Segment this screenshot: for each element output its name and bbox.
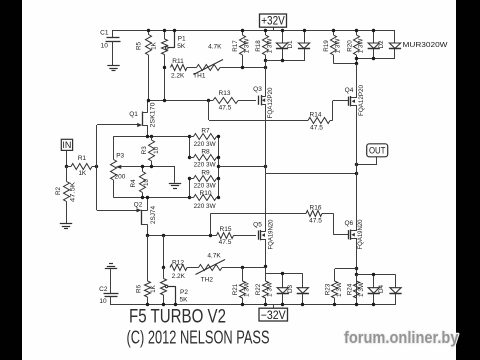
svg-text:C1: C1 [100,29,109,36]
junction D2a bottom [372,57,375,60]
svg-text:−32V: −32V [261,310,286,322]
TH1 value 4.7K [208,43,222,50]
junction D1b top [303,29,306,32]
svg-text:1K: 1K [150,41,157,50]
junction R18 top [264,29,267,32]
resistor R18 [263,30,269,61]
transistor Q4 [349,96,358,106]
junction rail P2 [162,303,165,306]
svg-text:D2: D2 [378,40,385,49]
junction rail P2 wiper [174,303,177,306]
svg-text:220 3W: 220 3W [194,183,217,190]
+32V rail wire [113,30,395,32]
svg-text:5K: 5K [177,43,186,50]
R16 value 47.5 [309,218,322,225]
thermistor TH2 [196,260,226,275]
resistor R7 [190,134,220,140]
svg-text:R14: R14 [310,111,322,118]
svg-text:1 3W: 1 3W [244,282,251,297]
svg-text:OUT: OUT [369,146,386,156]
svg-text:R21: R21 [232,283,239,295]
R1 value 1K [78,170,87,177]
R18 label [255,40,262,52]
junction OUT stub [355,163,358,166]
Q1 label [129,111,138,118]
Q3 type FQA12P20 [267,87,274,118]
C2 label [99,286,108,293]
junction rail R23 [333,303,336,306]
wire D4 tops [357,274,396,276]
svg-text:Q6: Q6 [344,220,353,227]
junction rail D3a [281,303,284,306]
R6 label [136,284,143,293]
resistor R20 [354,30,360,64]
diode D3b [297,274,309,306]
svg-text:R10: R10 [200,190,212,197]
wire Q1 drain node [148,100,213,102]
junction rail R22 [264,303,267,306]
resistor R11 [171,65,188,71]
junction TH1 node [264,66,267,69]
junction lower gate drop [209,234,212,237]
R7 label [201,127,210,134]
junction Q2 source [146,196,149,199]
wire P3 bottom [113,180,115,198]
svg-text:10: 10 [143,179,150,187]
svg-text:220 3W: 220 3W [194,203,217,210]
Q6 type FQA19N20 [357,219,364,249]
svg-text:R1: R1 [78,155,87,162]
svg-text:220 3W: 220 3W [194,141,217,148]
R5 value 1K [150,41,157,50]
P1 label [178,35,186,42]
junction R1 gate node [95,165,98,168]
svg-text:1 3W: 1 3W [335,38,342,53]
junction D4a top [372,273,375,276]
resistor R23 [332,269,338,305]
R9 label [201,170,210,177]
svg-text:Q1: Q1 [129,111,138,118]
junction R7 left [188,135,191,138]
junction drain P1 [163,99,166,102]
junction gate drop [207,99,210,102]
svg-text:1 3W: 1 3W [243,38,250,53]
svg-text:R23: R23 [324,283,331,295]
-32V rail wire [110,304,396,306]
wire R14 to Q4 gate [333,101,349,121]
R8 label [201,149,210,156]
svg-text:R20: R20 [346,40,353,52]
junction R18 bottom [264,59,267,62]
diode D1a [276,30,288,61]
wire R19 R20 bottoms [334,63,357,65]
diode D3a [277,274,289,306]
wire P2 line upper [163,235,165,267]
title F5 TURBO V2 [129,307,226,328]
svg-text:FQA19N20: FQA19N20 [357,219,364,249]
svg-text:R11: R11 [172,58,184,65]
svg-text:R17: R17 [232,40,239,52]
TH2 value 4.7K [207,252,221,259]
R20 value [358,38,365,53]
R17 value [243,38,250,53]
wire Q6 source down [356,239,358,305]
resistor R14 [308,118,333,124]
resistor R4 [140,167,146,198]
junction out right [355,172,358,175]
svg-text:47.5: 47.5 [309,218,322,225]
svg-text:1K: 1K [150,284,157,293]
svg-text:D1: D1 [287,40,294,49]
P2 value 5K [180,297,189,304]
R5 label [135,41,142,50]
Q5 type FQA19N20 [267,219,274,249]
+32V supply box [260,14,287,30]
transistor Q6 [349,230,358,240]
svg-text:47.5: 47.5 [219,105,232,112]
svg-text:200: 200 [114,174,125,181]
R17 label [232,40,239,52]
potentiometer P3 [111,160,131,181]
resistor R21 [240,268,246,306]
junction R4 bottom [141,196,144,199]
title copyright [127,328,270,348]
resistor R9 [190,176,220,182]
junction bank right 4 [217,177,220,180]
P3 value 200 [114,174,125,181]
diode D2b [389,30,401,59]
R11 value 2.2K [171,72,185,79]
wire IN to R1 [66,150,68,166]
ground feedback mid [169,184,181,189]
svg-text:1 3W: 1 3W [267,282,274,297]
wire TH1 to R17 [220,67,266,69]
svg-text:R7: R7 [201,127,210,134]
R6 value 1K [150,284,157,293]
ground below R2 [60,224,72,229]
R3 value 10 [153,146,160,154]
wire Q6 drain up [356,174,358,231]
svg-text:F5 TURBO V2: F5 TURBO V2 [129,307,226,328]
svg-text:Q5: Q5 [253,222,262,229]
capacitor C1 [106,30,121,65]
wire D1 bottoms [266,60,304,62]
Q1 type 2SK170 [150,102,157,128]
svg-text:R6: R6 [136,284,143,293]
R22 label [255,283,262,295]
junction Q5 source R21 [264,265,267,268]
svg-text:R3: R3 [141,146,148,155]
Q5 label [253,222,262,229]
resistor R10 [190,195,220,201]
R4 value 10 [143,179,150,187]
Q4 label [345,87,354,94]
junction R12 tap [162,266,165,269]
wire out jog [265,167,267,174]
junction Q6 source D4 [355,273,358,276]
svg-text:FQA12P20: FQA12P20 [358,85,365,116]
svg-text:5K: 5K [180,297,189,304]
junction rail R24 [355,303,358,306]
resistor R16 [306,211,333,217]
R23 value [336,282,343,297]
svg-text:+32V: +32V [261,16,285,28]
resistor R5 [146,30,152,101]
wire gate spine [97,125,138,211]
svg-text:R18: R18 [255,40,262,52]
right letterbox bar [456,0,480,360]
junction bank right 1 [217,135,220,138]
svg-text:R15: R15 [220,226,232,233]
transistor Q1 [137,101,148,137]
junction rail R6 [146,303,149,306]
junction R20 top [355,29,358,32]
svg-text:D4: D4 [378,284,385,293]
resistor R13 [213,98,256,104]
wire R7R8 left rail [189,137,191,158]
wire Q4 drain down [356,105,358,231]
wire D3 tops [266,273,303,275]
TH1 label [193,72,206,79]
watermark forum.onliner.by [344,328,459,347]
-32V supply box [259,305,288,322]
junction P2 top [162,234,165,237]
R13 value 47.5 [219,105,232,112]
R22 value [267,282,274,297]
R23 label [324,283,331,295]
junction R17 bottom [241,66,244,69]
svg-text:P1: P1 [178,35,186,42]
TH2 label [201,276,214,283]
wire lower drop to R16 [211,213,307,235]
resistor R3 [149,137,155,167]
junction IN node [65,165,68,168]
svg-text:MUR3020W: MUR3020W [403,40,448,49]
junction R3 top [150,135,153,138]
svg-text:10: 10 [99,298,107,305]
wire R9R10 left rail [189,179,191,198]
wire feedback box bottom [113,197,189,199]
svg-text:R4: R4 [130,179,137,188]
svg-text:IN: IN [62,140,71,150]
svg-text:4.7K: 4.7K [207,252,221,259]
R24 value [358,282,365,297]
Q6 label [344,220,353,227]
svg-text:Q2: Q2 [134,201,143,208]
svg-text:2SJ74: 2SJ74 [150,206,157,224]
wire bank right rail [218,137,220,198]
svg-text:forum.onliner.by: forum.onliner.by [344,328,459,347]
thermistor TH1 [194,60,224,75]
resistor R12 [170,265,187,271]
svg-text:R8: R8 [201,149,210,156]
R14 label [310,111,322,118]
svg-text:R24: R24 [346,283,353,295]
junction D1a top [281,29,284,32]
wire Q3 drain down [265,104,267,167]
R1 label [78,155,87,162]
wire R23 top [335,268,357,270]
C1 value 10 [101,42,109,49]
svg-text:P2: P2 [180,289,188,296]
R16 label [310,205,322,212]
potentiometer P2 [161,268,176,306]
resistor R6 [145,235,151,305]
resistor R15 [217,233,257,239]
R14 value 47.5 [310,125,323,132]
junction rail D3b [301,303,304,306]
junction bank right 5 [217,196,220,199]
R9 value [194,183,217,190]
junction Q6 source R23 [355,267,358,270]
transistor Q2 [137,198,148,236]
resistor R19 [331,30,337,64]
svg-text:R5: R5 [135,41,142,50]
svg-text:C2: C2 [99,286,108,293]
svg-text:R9: R9 [201,170,210,177]
svg-text:1 3W: 1 3W [358,38,365,53]
junction out jog top [264,165,267,168]
svg-text:R22: R22 [255,283,262,295]
wire Q5 source down [265,239,267,273]
transistor Q5 [259,230,266,240]
svg-text:TH1: TH1 [193,72,206,79]
C1 label [100,29,109,36]
junction Q2 drain [146,234,149,237]
resistor R22 [263,274,269,306]
svg-text:(C) 2012 NELSON PASS: (C) 2012 NELSON PASS [127,328,270,348]
capacitor C2 [104,269,119,305]
P2 label [180,289,188,296]
ground below C1 [107,66,119,71]
R21 label [232,283,239,295]
wire R16 to Q6 gate [333,213,348,234]
svg-text:1 3W: 1 3W [336,282,343,297]
P1 value 5K [177,43,186,50]
wire TH2 to R21 [222,267,266,269]
svg-text:47.5: 47.5 [219,239,232,246]
junction Q1 source [146,135,149,138]
svg-text:R13: R13 [219,90,231,97]
R7 value [194,141,217,148]
wire OUT stub [357,157,377,165]
D2 type MUR3020W [403,40,448,49]
svg-text:R19: R19 [323,40,330,52]
R2 label [55,186,62,195]
D1 label [287,40,294,49]
junction bank right 2 [217,156,220,159]
junction R8 left [188,156,191,159]
junction D2a top [372,29,375,32]
junction R5 top [147,29,150,32]
svg-text:47.5: 47.5 [310,125,323,132]
Q4 type FQA12P20 [358,85,365,116]
R15 value 47.5 [219,239,232,246]
svg-text:D3: D3 [287,284,294,293]
svg-text:4.7K: 4.7K [208,43,222,50]
IN port box [61,139,72,150]
P3 label [116,152,124,159]
ground above C2 [105,264,117,269]
Q2 label [134,201,143,208]
wire feedback mid [130,167,175,183]
junction TH2 R21 [241,266,244,269]
junction R3 bottom [150,165,153,168]
svg-text:TH2: TH2 [201,276,214,283]
R24 label [346,283,353,295]
R15 label [220,226,232,233]
junction D2 wire [355,57,358,60]
junction P1 top [163,29,166,32]
svg-text:1 3W: 1 3W [358,282,365,297]
junction R10 left [188,196,191,199]
junction R9 left [188,177,191,180]
junction R20 bottom [355,62,358,65]
svg-text:FQA19N20: FQA19N20 [267,219,274,249]
D3 label [287,284,294,293]
R20 label [346,40,353,52]
svg-text:47.5K: 47.5K [69,181,76,202]
junction R17 top [241,29,244,32]
R12 label [172,260,184,267]
R11 label [172,58,184,65]
diode D4b [389,275,401,306]
diode D1b [298,30,310,61]
diode D4a [368,275,380,306]
svg-text:FQA12P20: FQA12P20 [267,87,274,118]
wire Q3 source up [265,61,267,96]
wire R11 to TH1 [187,67,197,69]
wire bank to Q3 drain [219,166,266,168]
junction R4 top [141,165,144,168]
svg-text:10: 10 [101,42,109,49]
D2 label [378,40,385,49]
R8 value [194,162,217,169]
junction D3a top [281,272,284,275]
resistor R1 [66,164,97,170]
R10 label [200,190,212,197]
svg-text:220 3W: 220 3W [194,162,217,169]
svg-text:1K: 1K [78,170,87,177]
left letterbox bar [0,0,22,360]
R18 value [267,38,274,53]
resistor R24 [354,275,360,306]
svg-text:P3: P3 [116,152,124,159]
resistor R2 [64,166,70,223]
svg-text:R16: R16 [310,205,322,212]
wire feedback box top [113,137,189,160]
svg-text:10: 10 [153,146,160,154]
resistor R8 [190,155,220,161]
junction drain R5 [147,99,150,102]
R2 value 47.5K [69,181,76,202]
svg-text:2.2K: 2.2K [172,273,186,280]
resistor R17 [240,30,246,67]
D4 label [378,284,385,293]
R4 label [130,179,137,188]
junction P1 wiper rail [173,29,176,32]
wire R12 to TH2 [187,267,199,269]
svg-text:Q4: Q4 [345,87,354,94]
junction bank right 3 [217,165,220,168]
transistor Q3 [259,95,266,105]
R13 label [219,90,231,97]
junction D1a bottom [281,59,284,62]
R10 value [194,203,217,210]
R19 label [323,40,330,52]
potentiometer P1 [162,30,175,101]
C2 value 10 [99,298,107,305]
